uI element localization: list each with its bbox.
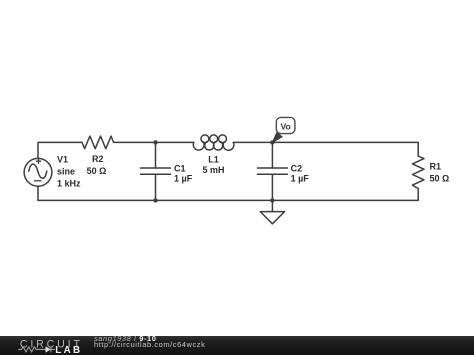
- svg-text:L1: L1: [208, 155, 219, 165]
- Vo probe pointer: [272, 132, 282, 142]
- circuitlab logo: [0, 336, 90, 355]
- wire L1 to R1 top corner: [233, 142, 418, 156]
- svg-text:50 Ω: 50 Ω: [87, 166, 107, 176]
- node dot C1 bottom: [153, 198, 157, 202]
- capacitor C2 plates: [257, 168, 287, 174]
- wire R2 to L1: [114, 141, 194, 143]
- svg-text:C2: C2: [291, 163, 303, 173]
- svg-text:1 µF: 1 µF: [174, 173, 193, 183]
- svg-text:5 mH: 5 mH: [202, 165, 224, 175]
- wire bottom rail: [38, 199, 418, 201]
- svg-text:Vo: Vo: [280, 121, 290, 131]
- svg-text:R2: R2: [92, 154, 104, 164]
- node dot C1 top: [153, 140, 157, 144]
- capacitor C1 plates: [141, 168, 171, 174]
- voltage source V1 circle: [24, 158, 52, 186]
- V1 minus sign: [34, 180, 42, 182]
- resistor R1 zigzag: [412, 156, 424, 189]
- svg-text:1 kHz: 1 kHz: [57, 179, 81, 189]
- svg-text:50 Ω: 50 Ω: [430, 173, 450, 183]
- V1 plus sign: [34, 158, 42, 180]
- wire V1 bottom to bottom rail: [37, 186, 39, 200]
- footer bar: [0, 336, 474, 355]
- Vo probe box: [276, 117, 295, 133]
- capacitor C1 bottom lead: [155, 174, 157, 200]
- node dot C2 bottom / ground: [270, 198, 274, 202]
- svg-text:sine: sine: [57, 167, 75, 177]
- inductor L1 coil: [193, 135, 234, 150]
- svg-text:1 µF: 1 µF: [291, 173, 310, 183]
- ground triangle: [260, 212, 284, 224]
- ground stub: [271, 200, 273, 211]
- node dot Vo/C2 top: [270, 140, 274, 144]
- svg-text:R1: R1: [430, 162, 442, 172]
- capacitor C1 top lead: [155, 142, 157, 168]
- wire R1 bottom lead: [417, 189, 419, 201]
- svg-text:V1: V1: [57, 155, 68, 165]
- wire top left V1 to R2: [38, 142, 82, 158]
- V1 sine waveform: [29, 164, 47, 178]
- svg-text:LAB: LAB: [55, 345, 82, 355]
- resistor R2 zigzag: [82, 136, 114, 149]
- svg-text:C1: C1: [174, 163, 186, 173]
- credit text: [94, 336, 205, 348]
- capacitor C2 top lead: [271, 142, 273, 168]
- capacitor C2 bottom lead: [271, 174, 273, 200]
